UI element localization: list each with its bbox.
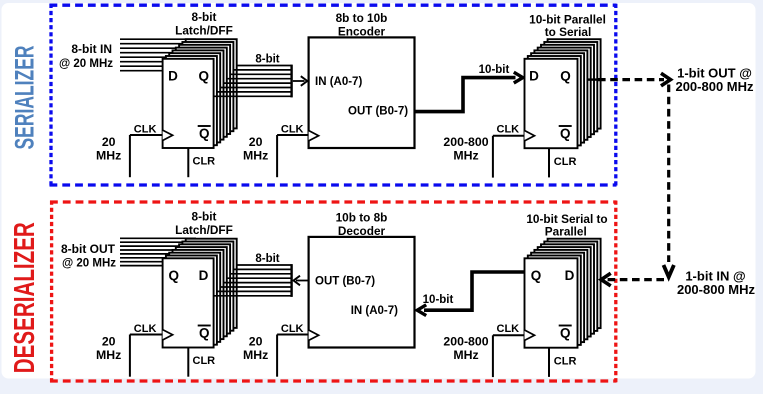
label 200-800 MHz clock — [443, 135, 488, 162]
label CLR serial stack — [554, 355, 577, 367]
svg-text:DESERIALIZER: DESERIALIZER — [9, 222, 41, 373]
label 8-bit bundle — [255, 54, 279, 66]
svg-text:D: D — [565, 268, 575, 283]
label 8-bit Latch/DFF — [175, 10, 233, 38]
serializer pin label D — [529, 68, 539, 83]
svg-text:8-bit: 8-bit — [192, 10, 217, 24]
serial stack pin label Qbar — [559, 126, 572, 141]
svg-text:D: D — [529, 68, 539, 83]
deserializer dashed boundary box — [50, 201, 617, 383]
svg-text:Latch/DFF: Latch/DFF — [175, 24, 233, 38]
svg-text:CLK: CLK — [134, 323, 157, 335]
label 10-bit bus — [423, 294, 454, 306]
label 20 MHz latch clock — [96, 135, 121, 163]
clock input triangle — [163, 330, 173, 340]
wire CLK to decoder — [277, 335, 309, 377]
svg-text:20: 20 — [249, 334, 263, 348]
wire CLK to serial stack — [493, 335, 525, 377]
svg-text:8-bit: 8-bit — [255, 253, 279, 265]
deserializer pin label Q — [531, 268, 542, 283]
svg-text:200-800 MHz: 200-800 MHz — [677, 282, 756, 297]
8-bit bundle wires latch-to-encoder — [214, 65, 292, 98]
8-bit bundle wires latch-to-decoder — [214, 264, 292, 297]
wire CLR serial stack — [548, 148, 550, 177]
svg-text:CLR: CLR — [554, 355, 577, 367]
svg-text:CLR: CLR — [193, 155, 216, 167]
latch U1 pin label Q — [199, 68, 210, 83]
svg-text:CLK: CLK — [281, 123, 304, 135]
label 8-bit Latch/DFF — [175, 210, 233, 238]
svg-text:Q: Q — [531, 268, 542, 283]
svg-text:CLR: CLR — [193, 355, 216, 367]
svg-text:Q: Q — [560, 326, 571, 341]
svg-text:IN (A0-7): IN (A0-7) — [351, 305, 398, 317]
svg-text:D: D — [199, 268, 209, 283]
latch U4 pin label Q — [169, 268, 180, 283]
svg-text:20: 20 — [102, 334, 116, 348]
label CLR latch — [193, 355, 216, 367]
serial stack pin label Qbar — [559, 326, 572, 341]
8-bit Latch/DFF U1 stack — [163, 39, 237, 148]
label CLR latch — [193, 155, 216, 167]
label CLR serial stack — [554, 156, 577, 168]
svg-text:MHz: MHz — [453, 148, 478, 162]
label CLK serial stack — [497, 323, 520, 335]
svg-text:Q: Q — [199, 68, 210, 83]
wire CLK to serial stack — [493, 136, 525, 178]
dashed wire 1-bit IN — [601, 273, 664, 286]
clock input triangle — [163, 130, 173, 140]
label above serial stack — [529, 12, 606, 39]
latch pin label Qbar — [198, 326, 211, 341]
svg-text:20: 20 — [102, 135, 116, 149]
label 10-bit bus — [479, 64, 510, 76]
label CLK latch — [134, 123, 157, 135]
svg-text:200-800: 200-800 — [443, 135, 488, 149]
svg-text:MHz: MHz — [243, 348, 268, 362]
serializer dashed boundary box — [50, 4, 617, 186]
svg-text:to Serial: to Serial — [545, 25, 592, 39]
8-bit output lines to 8-bit OUT — [120, 238, 196, 265]
encoder port label IN (A0-7) — [315, 76, 362, 88]
svg-text:Decoder: Decoder — [338, 224, 386, 238]
label above encoder — [336, 11, 388, 39]
svg-text:SERIALIZER: SERIALIZER — [10, 45, 40, 149]
svg-text:Q: Q — [169, 268, 180, 283]
wire CLK to encoder — [277, 135, 309, 177]
wire arrow bundle to encoder IN — [293, 76, 308, 86]
10-bit parallel-to-serial U3 stack — [525, 39, 601, 148]
svg-text:OUT (B0-7): OUT (B0-7) — [315, 276, 375, 288]
latch pin label Qbar — [198, 126, 211, 141]
10-bit bus deserializer to decoder — [417, 272, 524, 316]
wire CLK to latch — [130, 135, 163, 177]
svg-text:Parallel: Parallel — [545, 225, 587, 239]
latch U4 pin label D — [199, 268, 209, 283]
svg-text:8-bit: 8-bit — [255, 54, 279, 66]
wire CLR latch — [187, 148, 189, 177]
label 8-bit bundle — [255, 253, 279, 265]
serializer pin label Q — [560, 68, 571, 83]
label 1-bit OUT @ 200-800 MHz — [675, 65, 754, 94]
dashed wire 1-bit OUT — [598, 73, 671, 86]
svg-text:CLK: CLK — [497, 323, 520, 335]
wire arrow decoder OUT to bundle — [294, 276, 309, 286]
svg-text:CLK: CLK — [497, 124, 520, 136]
label DESERIALIZER — [9, 222, 41, 373]
svg-text:IN (A0-7): IN (A0-7) — [315, 76, 362, 88]
label CLK latch — [134, 323, 157, 335]
svg-text:MHz: MHz — [96, 348, 121, 362]
svg-text:8-bit IN: 8-bit IN — [71, 42, 112, 56]
label 20 MHz latch clock — [96, 334, 121, 362]
10-bit serial-to-parallel U6 stack — [525, 239, 601, 348]
clock input triangle — [525, 131, 535, 141]
label 8-bit OUT @ 20 MHz — [61, 242, 116, 270]
svg-text:D: D — [168, 68, 178, 83]
svg-text:Latch/DFF: Latch/DFF — [175, 223, 233, 237]
svg-text:MHz: MHz — [243, 149, 268, 163]
svg-text:Q: Q — [560, 68, 571, 83]
label 200-800 MHz clock — [443, 334, 488, 361]
wire CLK to latch — [130, 335, 163, 377]
svg-text:10b to 8b: 10b to 8b — [336, 211, 388, 225]
label above serial stack — [526, 212, 607, 239]
encoder port label OUT (B0-7) — [348, 105, 408, 117]
clock input triangle — [525, 330, 535, 340]
svg-text:10-bit: 10-bit — [479, 64, 510, 76]
svg-text:Encoder: Encoder — [338, 25, 386, 39]
label 20 MHz coder clock — [243, 334, 268, 362]
label 8-bit IN @ 20 MHz — [59, 42, 113, 70]
svg-text:MHz: MHz — [96, 149, 121, 163]
svg-text:MHz: MHz — [453, 348, 478, 362]
decoder port label IN (A0-7) — [351, 305, 398, 317]
svg-text:10-bit: 10-bit — [423, 294, 454, 306]
clock input triangle — [309, 131, 319, 141]
10b-to-8b decoder U5 — [309, 237, 415, 348]
label 1-bit IN @ 200-800 MHz — [677, 268, 756, 297]
svg-text:200-800 MHz: 200-800 MHz — [675, 79, 754, 94]
decoder port label OUT (B0-7) — [315, 276, 375, 288]
10-bit bus encoder to serializer — [415, 72, 523, 111]
svg-text:Q: Q — [199, 326, 210, 341]
latch U1 pin label D — [168, 68, 178, 83]
clock input triangle — [309, 330, 319, 340]
label SERIALIZER — [10, 45, 40, 149]
8-bit input lines from 8-bit IN — [120, 39, 196, 70]
svg-text:CLK: CLK — [134, 123, 157, 135]
deserializer pin label D — [565, 268, 575, 283]
wire serial out of serializer — [588, 78, 601, 80]
svg-text:200-800: 200-800 — [443, 334, 488, 348]
label 20 MHz coder clock — [243, 135, 268, 163]
svg-text:8-bit OUT: 8-bit OUT — [61, 242, 116, 256]
svg-text:8b to 10b: 8b to 10b — [336, 11, 388, 25]
wire CLR latch — [187, 348, 189, 377]
label CLK serial stack — [497, 124, 520, 136]
8-bit Latch/DFF U4 stack — [163, 239, 237, 348]
label CLK coder — [281, 323, 304, 335]
svg-text:CLR: CLR — [554, 156, 577, 168]
svg-text:Q: Q — [560, 126, 571, 141]
svg-text:CLK: CLK — [281, 323, 304, 335]
svg-text:20: 20 — [249, 135, 263, 149]
wire CLR serial stack — [548, 348, 550, 377]
svg-text:8-bit: 8-bit — [192, 210, 217, 224]
dashed wire serializer to deserializer vertical — [664, 85, 674, 278]
label above decoder — [336, 211, 388, 239]
8b-to-10b encoder U2 — [309, 37, 415, 148]
svg-text:OUT (B0-7): OUT (B0-7) — [348, 105, 408, 117]
svg-text:@ 20 MHz: @ 20 MHz — [59, 58, 113, 70]
svg-text:@ 20 MHz: @ 20 MHz — [62, 258, 116, 270]
label CLK coder — [281, 123, 304, 135]
svg-text:Q: Q — [199, 126, 210, 141]
